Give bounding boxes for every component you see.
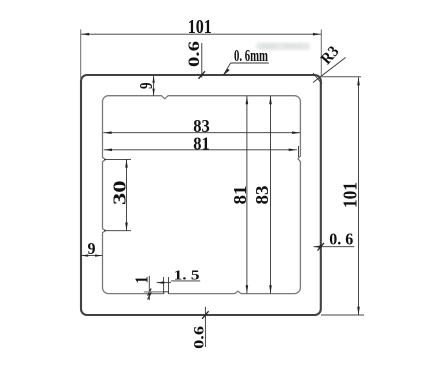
- dimension 1 (bottom tab height): [148, 276, 152, 300]
- svg-text:83: 83: [252, 186, 272, 205]
- tab top extension line (gray): [144, 291, 164, 293]
- dimension 0.6 top wall: [201, 43, 203, 78]
- dimension 30 with extension lines: [104, 159, 131, 230]
- dimension 81 horizontal: [104, 146, 299, 157]
- dimension 101 right: [357, 77, 360, 315]
- svg-text:0.6: 0.6: [186, 41, 203, 67]
- svg-text:1: 1: [132, 276, 152, 284]
- svg-text:30: 30: [109, 181, 129, 206]
- dimension 101 top: [81, 33, 321, 36]
- svg-text:81: 81: [230, 186, 250, 205]
- extension line left (for top 101): [80, 29, 82, 80]
- dimension 9 top: [152, 76, 154, 96]
- svg-text:0. 6: 0. 6: [329, 229, 353, 248]
- dimension 0.6 right wall with leader: [314, 243, 355, 251]
- svg-text:9: 9: [88, 239, 96, 258]
- svg-text:101: 101: [340, 182, 362, 208]
- inner profile with notches and hooks: [103, 96, 301, 294]
- dimension 1.5 (bottom tab width): [157, 277, 201, 294]
- outer profile (101 x 101 square tube, R3 corners): [81, 75, 321, 315]
- dimension 9 bottom-left: [81, 254, 102, 256]
- svg-text:101: 101: [188, 17, 212, 38]
- dimension 81 vertical: [246, 96, 249, 294]
- extension line top-right horizontal (for right 101): [322, 76, 362, 78]
- extension line bottom edge extended (for right 101): [321, 314, 364, 316]
- dimension 83 horizontal: [103, 131, 300, 134]
- dimension 83 vertical: [269, 96, 272, 294]
- svg-text:81: 81: [193, 133, 210, 153]
- svg-text:0. 6mm: 0. 6mm: [234, 46, 268, 65]
- dimension 0.6 bottom wall: [204, 307, 206, 347]
- svg-text:9: 9: [136, 82, 156, 89]
- svg-text:0.6: 0.6: [192, 325, 208, 349]
- extension line right (for top 101): [320, 29, 322, 76]
- svg-text:1. 5: 1. 5: [174, 268, 200, 283]
